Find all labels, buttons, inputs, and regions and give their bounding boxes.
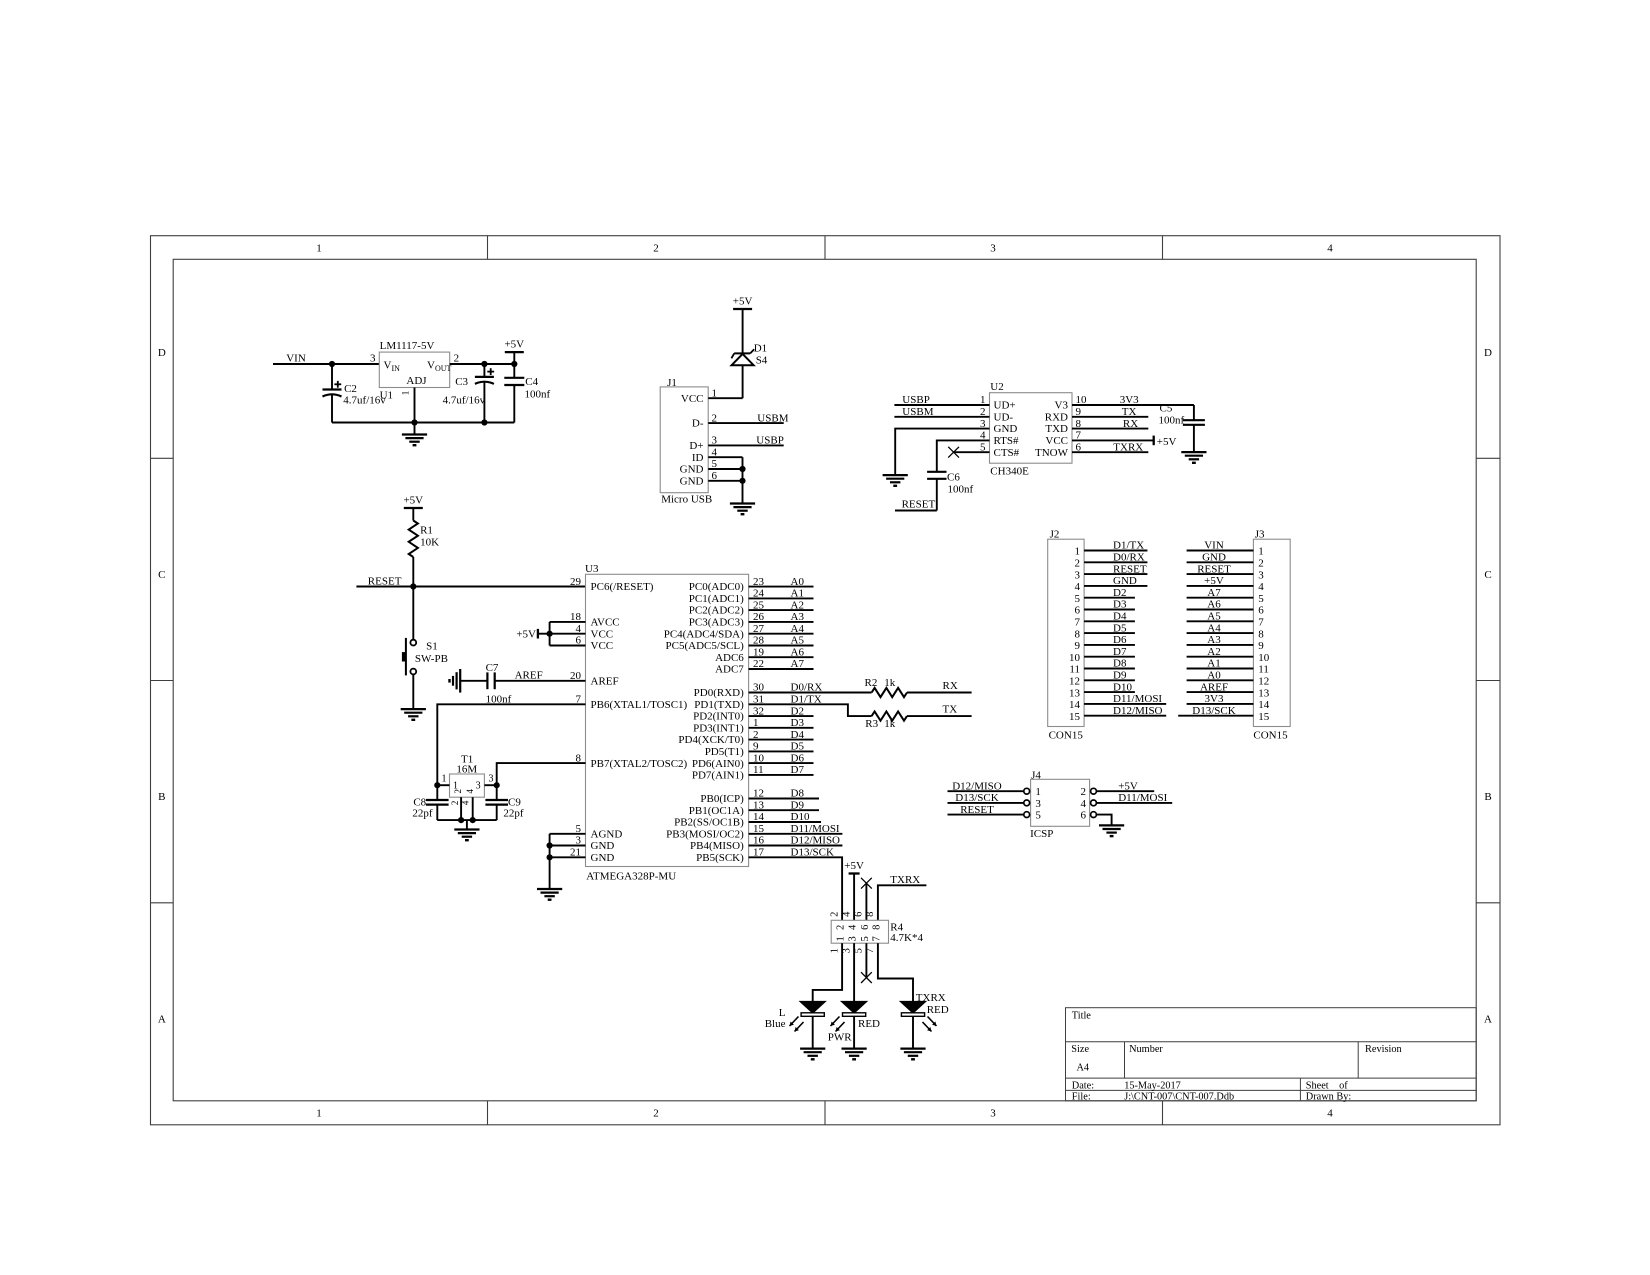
J1 pin 2 number (712, 412, 718, 424)
U2 pin 7 number (1076, 430, 1082, 442)
svg-text:D4: D4 (791, 729, 805, 741)
wire J1 ID (708, 456, 742, 458)
wire / node D1/TX (J2 pin 1) (1084, 540, 1147, 552)
U3 pin 11 number (753, 764, 764, 776)
U3 pin 26 number (753, 611, 765, 623)
U3 pin 20 number (570, 670, 582, 682)
svg-text:SW-PB: SW-PB (415, 653, 448, 665)
C3 value 4.7uf/16v (443, 395, 486, 407)
svg-text:PC1(ADC1): PC1(ADC1) (689, 593, 744, 605)
svg-text:4: 4 (461, 800, 471, 805)
svg-text:U3: U3 (585, 563, 599, 575)
svg-text:A0: A0 (791, 576, 805, 588)
svg-text:4.7K*4: 4.7K*4 (890, 932, 923, 944)
svg-text:ID: ID (692, 452, 704, 464)
svg-text:+5V: +5V (844, 860, 864, 872)
svg-text:D6: D6 (1113, 634, 1127, 646)
svg-text:6: 6 (860, 925, 871, 930)
U3 pin 6 number (576, 635, 582, 647)
wire / node RESET (356, 575, 585, 587)
svg-text:3V3: 3V3 (1205, 693, 1224, 705)
wire J1 GND pin5 (708, 468, 742, 470)
svg-text:ATMEGA328P-MU: ATMEGA328P-MU (586, 871, 676, 883)
svg-text:D11/MOSI: D11/MOSI (791, 823, 840, 835)
svg-text:3: 3 (489, 773, 494, 784)
U3 pin 14 number (753, 811, 765, 823)
wire / node TXRX (R4 pin8) (878, 874, 927, 920)
svg-text:3: 3 (990, 243, 996, 255)
svg-text:A5: A5 (791, 635, 805, 647)
svg-text:4: 4 (848, 924, 859, 930)
LED TXRX (RED) (901, 992, 945, 1049)
svg-text:100nf: 100nf (948, 483, 974, 495)
power +5V (R4) (844, 860, 864, 920)
J1 pin 5 number (712, 458, 718, 470)
R1 value 10K (420, 537, 439, 549)
svg-text:4: 4 (465, 788, 475, 793)
U2 pin 10 number (1076, 394, 1088, 406)
svg-text:7: 7 (1258, 617, 1264, 629)
svg-text:A5: A5 (1207, 611, 1221, 623)
svg-text:USBM: USBM (757, 412, 788, 424)
wire / node D7 (J2 pin 10) (1084, 646, 1135, 658)
wire U1 ADJ pin (414, 388, 416, 423)
resistor R2 (865, 677, 908, 697)
wire / node D7 (749, 764, 814, 776)
wire / node RX (U2 TXD) (1072, 418, 1148, 430)
wire AGND pin5 (550, 833, 586, 835)
svg-text:S1: S1 (426, 641, 438, 653)
LED L (Blue) (779, 1002, 825, 1049)
wire / node D5 (J2 pin 8) (1084, 622, 1135, 634)
svg-text:PC0(ADC0): PC0(ADC0) (689, 581, 744, 593)
wire / node A1 (J3 pin 11) (1187, 658, 1254, 670)
svg-text:J:\CNT-007\CNT-007.Ddb: J:\CNT-007\CNT-007.Ddb (1124, 1091, 1234, 1102)
svg-text:VCC: VCC (591, 640, 614, 652)
wire / node USBP to U2 (894, 394, 989, 406)
wire / node RESET (J4 pin5) (948, 804, 1024, 816)
svg-text:C7: C7 (486, 662, 499, 674)
svg-text:6: 6 (1081, 810, 1087, 822)
wire / node D8 (J2 pin 11) (1084, 658, 1135, 670)
svg-text:+5V: +5V (516, 628, 536, 640)
svg-text:TXRX: TXRX (1113, 441, 1143, 453)
svg-text:R3: R3 (865, 718, 878, 730)
svg-text:A1: A1 (791, 588, 804, 600)
svg-text:RESET: RESET (368, 575, 402, 587)
svg-text:C6: C6 (947, 471, 960, 483)
U3 pin 31 number (753, 694, 764, 706)
svg-text:R1: R1 (420, 525, 433, 537)
LED PWR light arrows (831, 1017, 845, 1032)
svg-text:1: 1 (316, 1108, 322, 1120)
svg-text:4: 4 (1075, 581, 1081, 593)
svg-text:PC5(ADC5/SCL): PC5(ADC5/SCL) (666, 640, 745, 652)
R2 value 1k (884, 677, 896, 689)
wire / node RESET (C6) (895, 499, 937, 511)
LED L light arrows (790, 1017, 804, 1032)
ground (LED TXRX) (900, 1049, 925, 1060)
svg-text:PC4(ADC4/SDA): PC4(ADC4/SDA) (664, 628, 744, 640)
svg-text:RX: RX (943, 680, 958, 692)
svg-text:PC3(ADC3): PC3(ADC3) (689, 617, 744, 629)
svg-text:PD0(RXD): PD0(RXD) (694, 687, 744, 699)
wire / node D2 (J2 pin 5) (1084, 587, 1135, 599)
junction T1 pin4/rail (470, 817, 476, 823)
svg-text:10K: 10K (420, 537, 439, 549)
junction T1 pin2/rail (458, 817, 464, 823)
U3 pin 5 number (576, 823, 582, 835)
wire VCC pin6 (550, 645, 586, 647)
svg-text:8: 8 (1075, 628, 1081, 640)
wire PB6/XTAL1 (437, 704, 585, 785)
svg-text:TXRX: TXRX (916, 992, 946, 1004)
wire / node D12/MISO (J2 pin 15) (1084, 705, 1166, 717)
svg-text:+5V: +5V (733, 296, 753, 308)
power +5V (U3 VCC) (516, 628, 549, 640)
svg-text:C: C (158, 569, 165, 581)
svg-text:14: 14 (1069, 699, 1081, 711)
svg-text:1k: 1k (884, 677, 896, 689)
svg-text:8: 8 (1258, 628, 1264, 640)
svg-text:D5: D5 (1113, 622, 1127, 634)
U3 pin 17 number (753, 847, 765, 859)
svg-text:1: 1 (316, 243, 322, 255)
svg-text:A2: A2 (791, 599, 804, 611)
wire VIN to U1 pin3 (273, 363, 379, 365)
svg-text:D10: D10 (791, 811, 810, 823)
svg-text:D6: D6 (791, 752, 805, 764)
svg-text:USBM: USBM (902, 406, 933, 418)
svg-text:RX: RX (1123, 418, 1138, 430)
svg-text:4: 4 (1327, 1108, 1333, 1120)
svg-text:6: 6 (854, 912, 865, 917)
wire / node D12/MISO (749, 835, 843, 847)
svg-text:Revision: Revision (1365, 1044, 1402, 1055)
svg-text:J2: J2 (1050, 529, 1060, 541)
svg-text:D9: D9 (791, 799, 805, 811)
svg-text:TX: TX (943, 704, 958, 716)
svg-text:6: 6 (1258, 605, 1264, 617)
wire / node D0/RX (749, 682, 872, 694)
svg-text:PB3(MOSI/OC2): PB3(MOSI/OC2) (666, 828, 744, 840)
wire / node AREF (495, 670, 586, 682)
svg-text:3: 3 (370, 353, 376, 365)
svg-text:16M: 16M (456, 764, 477, 776)
svg-text:14: 14 (1258, 699, 1270, 711)
svg-text:File:: File: (1072, 1091, 1091, 1102)
wire / node D9 (749, 799, 819, 811)
junction RESET/R1 (410, 583, 416, 589)
LED TXRX light arrows (923, 1017, 937, 1032)
C8 value 22pf (412, 808, 433, 820)
wire AVCC pin18 (550, 621, 586, 623)
svg-text:V3: V3 (1055, 400, 1069, 412)
svg-text:UD+: UD+ (994, 400, 1016, 412)
svg-text:2: 2 (453, 789, 463, 794)
wire VCC pin4 (550, 633, 586, 635)
svg-text:GND: GND (680, 464, 704, 476)
svg-text:100nf: 100nf (1159, 415, 1185, 427)
wire RESET to S1 (412, 587, 414, 640)
svg-text:C: C (1484, 569, 1491, 581)
ground (C5) (1181, 452, 1206, 463)
svg-text:1: 1 (1258, 546, 1264, 558)
svg-text:ADC7: ADC7 (715, 664, 744, 676)
no-connect X (R4 pin6 top) (861, 878, 872, 889)
U3 pin 30 number (753, 682, 765, 694)
svg-text:D-: D- (692, 418, 704, 430)
svg-text:GND: GND (1113, 575, 1137, 587)
wire / node RESET (J3 pin 3) (1187, 563, 1254, 575)
wire / node A5 (749, 635, 814, 647)
C5 value 100nf (1159, 415, 1185, 427)
svg-text:PD6(AIN0): PD6(AIN0) (692, 758, 744, 770)
wire / node A7 (J3 pin 5) (1187, 587, 1254, 599)
wire / node A0 (J3 pin 12) (1187, 670, 1254, 682)
svg-text:29: 29 (570, 576, 582, 588)
junction J1 pin5 (739, 466, 745, 472)
svg-text:D10: D10 (1113, 681, 1132, 693)
connector J2 CON15 (1048, 529, 1084, 742)
wire PB7/XTAL2 (497, 763, 586, 785)
wire / node A6 (J3 pin 6) (1187, 599, 1254, 611)
svg-text:4: 4 (841, 911, 852, 917)
wire U2 CTS# (954, 451, 990, 453)
junction XTAL1/T1/C8 (434, 782, 440, 788)
svg-text:D0/RX: D0/RX (1113, 552, 1145, 564)
svg-text:12: 12 (1258, 676, 1269, 688)
svg-text:GND: GND (994, 423, 1018, 435)
crystal T1 16M (437, 754, 496, 821)
junction C4 top (511, 361, 517, 367)
svg-text:C2: C2 (344, 383, 357, 395)
wire / node A3 (749, 611, 814, 623)
svg-text:D7: D7 (1113, 646, 1127, 658)
svg-text:C9: C9 (508, 796, 521, 808)
svg-text:PB6(XTAL1/TOSC1): PB6(XTAL1/TOSC1) (591, 699, 688, 711)
wire / node A6 (749, 646, 814, 658)
wire / node RESET (J2 pin 3) (1084, 563, 1147, 575)
svg-text:+5V: +5V (1204, 575, 1224, 587)
IC U2 CH340E (990, 381, 1073, 477)
svg-text:D11/MOSI: D11/MOSI (1118, 792, 1167, 804)
svg-text:D9: D9 (1113, 670, 1127, 682)
svg-text:AREF: AREF (1200, 681, 1228, 693)
svg-text:PC6(/RESET): PC6(/RESET) (591, 581, 654, 593)
svg-text:R2: R2 (865, 677, 878, 689)
svg-text:J1: J1 (667, 377, 677, 389)
svg-text:Micro USB: Micro USB (661, 494, 712, 506)
svg-text:1: 1 (401, 390, 411, 395)
power +5V (R1) (403, 495, 423, 521)
svg-text:3: 3 (476, 780, 481, 791)
wire / node +5V (J4 pin2) (1096, 780, 1154, 792)
svg-text:15: 15 (1069, 711, 1081, 723)
wire / node +5V (J3 pin 4) (1187, 575, 1254, 587)
svg-text:RED: RED (858, 1018, 880, 1030)
U2 pin 4 number (980, 430, 986, 442)
svg-text:PB2(SS/OC1B): PB2(SS/OC1B) (674, 817, 744, 829)
U3 pin 12 number (753, 788, 764, 800)
svg-text:22pf: 22pf (412, 808, 433, 820)
svg-text:2: 2 (1258, 558, 1264, 570)
svg-text:11: 11 (1258, 664, 1269, 676)
wire GND pin3 (550, 845, 586, 847)
svg-text:PD3(INT1): PD3(INT1) (693, 722, 744, 734)
svg-text:PB1(OC1A): PB1(OC1A) (689, 805, 744, 817)
U3 pin 22 number (753, 658, 764, 670)
svg-text:ADJ: ADJ (406, 375, 427, 387)
svg-text:VIN: VIN (1204, 540, 1224, 552)
wire R4 pin7 to LED3 (878, 943, 913, 1002)
U3 pin 29 number (570, 576, 582, 588)
svg-text:TXD: TXD (1045, 423, 1068, 435)
U3 pin 19 number (753, 646, 765, 658)
svg-text:TXRX: TXRX (890, 874, 920, 886)
wire R4 pin6 top (865, 883, 867, 920)
svg-text:Sheet: Sheet (1306, 1081, 1329, 1092)
svg-text:PB5(SCK): PB5(SCK) (696, 852, 744, 864)
svg-text:A7: A7 (1207, 587, 1221, 599)
wire ground rail under regulator (332, 422, 514, 424)
svg-text:C5: C5 (1160, 403, 1173, 415)
capacitor C5 (1160, 403, 1205, 453)
IC U3 ATMEGA328P-MU (585, 563, 749, 883)
junction VCC (547, 631, 553, 637)
svg-text:S4: S4 (756, 355, 768, 367)
svg-text:2: 2 (1081, 786, 1087, 798)
svg-text:3: 3 (848, 936, 859, 941)
U3 pin 2 number (753, 729, 759, 741)
svg-text:Date:: Date: (1072, 1081, 1094, 1092)
svg-text:VCC: VCC (681, 393, 704, 405)
svg-text:of: of (1339, 1081, 1348, 1092)
junction C3 top (481, 361, 487, 367)
wire / node GND (J2 pin 4) (1084, 575, 1147, 587)
svg-text:22pf: 22pf (503, 808, 524, 820)
svg-text:TNOW: TNOW (1035, 447, 1069, 459)
svg-text:A4: A4 (1207, 622, 1221, 634)
wire C7 left (460, 680, 487, 682)
U3 pin 1 number (753, 717, 759, 729)
svg-text:C8: C8 (413, 796, 426, 808)
U3 pin 18 number (570, 611, 582, 623)
wire R4 pin3 to LED2 (853, 943, 855, 1002)
svg-text:D5: D5 (791, 741, 805, 753)
svg-text:D8: D8 (791, 788, 805, 800)
wire J1 VCC to D1 (708, 397, 742, 399)
wire R4 pin1 to LED1 (813, 943, 842, 1002)
wire VCC stub vertical (549, 622, 551, 646)
wire U2 RTS# to C6 (937, 440, 990, 471)
svg-text:15: 15 (1258, 711, 1270, 723)
svg-text:GND: GND (591, 852, 615, 864)
wire / node D3 (749, 717, 814, 729)
svg-text:8: 8 (865, 912, 876, 917)
svg-text:U2: U2 (990, 381, 1003, 393)
wire U2 GND (895, 429, 989, 476)
U3 pin 27 number (753, 623, 765, 635)
wire R4 pin5 (no connect) (865, 943, 867, 977)
svg-text:12: 12 (1069, 676, 1080, 688)
svg-text:D2: D2 (791, 705, 804, 717)
svg-text:D7: D7 (791, 764, 805, 776)
connector J4 ICSP (1024, 769, 1097, 840)
svg-text:PD2(INT0): PD2(INT0) (693, 711, 744, 723)
svg-text:A1: A1 (1207, 658, 1220, 670)
svg-text:RXD: RXD (1045, 411, 1068, 423)
U3 pin 13 number (753, 799, 765, 811)
junction ADJ/rail (411, 419, 417, 425)
svg-text:CH340E: CH340E (990, 465, 1029, 477)
svg-text:ADC6: ADC6 (715, 652, 744, 664)
U2 pin 3 number (980, 418, 986, 430)
svg-text:AREF: AREF (591, 675, 619, 687)
power +5V (U2 VCC) (1072, 436, 1177, 448)
U3 pin 28 number (753, 635, 765, 647)
capacitor C7 (486, 662, 499, 689)
junction J1 pin6 (739, 478, 745, 484)
svg-text:A6: A6 (791, 646, 805, 658)
svg-text:D0/RX: D0/RX (791, 682, 823, 694)
svg-text:PC2(ADC2): PC2(ADC2) (689, 605, 744, 617)
resistor R3 (865, 712, 907, 731)
svg-text:A6: A6 (1207, 599, 1221, 611)
U2 pin 5 number (980, 441, 986, 453)
wire / node TXRX (U2 TNOW) (1072, 441, 1148, 453)
wire / node D13/SCK (J4 pin3) (948, 792, 1024, 804)
svg-text:4: 4 (1327, 243, 1333, 255)
resistor network R4 4.7K*4 (829, 911, 903, 954)
wire / node USBM to U2 (894, 406, 989, 418)
junction C3 bottom (481, 419, 487, 425)
wire / node A4 (J3 pin 8) (1187, 622, 1254, 634)
wire J4 pin6 to ground (1096, 815, 1111, 826)
wire / node D0/RX (J2 pin 2) (1084, 552, 1147, 564)
U2 pin 1 number (980, 394, 986, 406)
J1 pin 1 number (712, 387, 718, 399)
C9 value 22pf (503, 808, 524, 820)
resistor R1 (409, 521, 433, 587)
wire / node D11/MOSI (J4 pin4) (1096, 792, 1172, 804)
svg-text:9: 9 (1075, 640, 1081, 652)
svg-text:Number: Number (1129, 1044, 1163, 1055)
wire / node D4 (J2 pin 7) (1084, 611, 1135, 623)
U2 pin 8 number (1076, 418, 1082, 430)
U3 pin 24 number (753, 588, 765, 600)
junction XTAL2/T1/C9 (494, 782, 500, 788)
svg-text:1: 1 (836, 936, 847, 941)
svg-text:D8: D8 (1113, 658, 1127, 670)
U3 pin 3 number (576, 835, 582, 847)
svg-text:Drawn By:: Drawn By: (1306, 1091, 1352, 1102)
svg-text:CON15: CON15 (1049, 729, 1084, 741)
svg-text:C3: C3 (455, 376, 468, 388)
U3 pin 23 number (753, 576, 765, 588)
wire / node D11/MOSI (J2 pin 14) (1084, 693, 1166, 705)
U2 pin 2 number (980, 406, 986, 418)
svg-text:VCC: VCC (1045, 435, 1068, 447)
wire / node VIN (J3 pin 1) (1187, 540, 1254, 552)
U1 pin 2 number (454, 353, 460, 365)
svg-text:A4: A4 (1077, 1063, 1090, 1074)
svg-text:PD4(XCK/T0): PD4(XCK/T0) (678, 734, 744, 746)
C7 value 100nf (486, 694, 512, 706)
svg-text:D+: D+ (689, 440, 703, 452)
wire / node D8 (749, 788, 819, 800)
capacitor C3 (455, 364, 494, 423)
